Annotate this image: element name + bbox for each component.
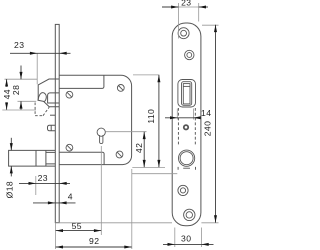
screw bottom-left xyxy=(66,144,73,151)
42 xyxy=(143,132,146,139)
screw top-right xyxy=(117,85,124,92)
dia 18 xyxy=(10,143,13,150)
cylinder step lines xyxy=(36,150,46,166)
bolt tail diagonal xyxy=(44,101,60,106)
hole 1 xyxy=(178,28,189,39)
hole 5 xyxy=(178,185,188,195)
svg-text:23: 23 xyxy=(38,173,48,183)
cylinder hole xyxy=(179,150,195,166)
screw bottom-right xyxy=(116,151,123,158)
svg-text:30: 30 xyxy=(181,233,191,243)
28 xyxy=(20,72,23,79)
bolt lower guide line xyxy=(50,114,55,116)
svg-text:14: 14 xyxy=(201,108,211,118)
extension lines (light) xyxy=(2,3,218,249)
hole 2 xyxy=(185,50,194,59)
cylinder neck xyxy=(46,152,55,164)
svg-text:4: 4 xyxy=(68,192,73,202)
svg-text:42: 42 xyxy=(134,143,144,153)
screw top-left xyxy=(66,91,73,98)
keyhole xyxy=(97,128,105,136)
23 top-right xyxy=(171,6,178,9)
dimension lines (dark) xyxy=(7,7,216,247)
latch slider xyxy=(182,82,192,106)
fixing screw hole xyxy=(184,125,188,129)
44 xyxy=(5,79,8,86)
svg-text:44: 44 xyxy=(2,89,12,99)
lock case body xyxy=(59,75,131,164)
svg-text:28: 28 xyxy=(11,85,21,95)
latch housing xyxy=(178,80,196,108)
faceplate outline xyxy=(172,23,201,226)
svg-text:240: 240 xyxy=(202,121,212,137)
svg-text:Ø18: Ø18 xyxy=(4,181,14,198)
cylinder tube xyxy=(9,150,56,166)
hole 6 xyxy=(184,209,195,220)
bolt hook tip xyxy=(38,93,46,102)
svg-text:92: 92 xyxy=(89,236,99,246)
hook bolt (solid outline) xyxy=(38,79,59,100)
110 xyxy=(157,75,160,82)
case interior partition lower xyxy=(59,152,104,164)
latch tab (side view) xyxy=(48,125,56,131)
latch channel hidden lines xyxy=(178,108,195,170)
faceplate bar (edge view) xyxy=(55,24,59,222)
latch face xyxy=(183,84,190,104)
line under cylinder hole xyxy=(183,167,190,169)
44 xyxy=(3,87,12,103)
svg-text:55: 55 xyxy=(72,221,82,231)
92 xyxy=(56,246,63,249)
svg-text:23: 23 xyxy=(181,0,191,8)
4 xyxy=(48,201,55,204)
240 xyxy=(214,25,217,32)
arrowheads xyxy=(5,6,217,249)
23 top-left xyxy=(30,52,37,55)
svg-text:110: 110 xyxy=(146,109,156,124)
svg-text:23: 23 xyxy=(14,40,24,50)
23 bottom-left xyxy=(29,182,36,185)
14 xyxy=(170,116,177,119)
30 xyxy=(168,243,175,246)
55 xyxy=(56,229,63,232)
case interior partition xyxy=(59,75,104,88)
bolt guide box xyxy=(48,93,60,103)
bolt hidden outline (dashed) xyxy=(35,103,49,116)
